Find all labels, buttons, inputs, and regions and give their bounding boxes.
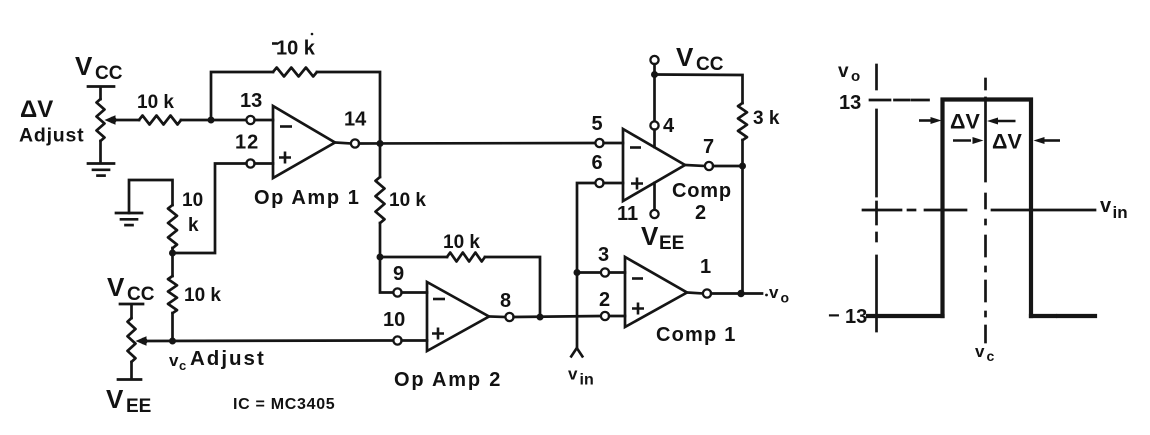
svg-text:V: V (641, 221, 659, 251)
wire node C to R6 (380, 256, 447, 259)
svg-text:c: c (179, 358, 186, 373)
svg-text:CC: CC (696, 54, 724, 75)
svg-text:Adjust: Adjust (19, 125, 84, 147)
label Comp 2 (672, 180, 732, 224)
svg-text:13: 13 (240, 90, 262, 112)
wire pin 4 stub into comp 2 (653, 130, 656, 147)
comparator U4 Comp 1 (625, 257, 687, 327)
svg-text:Op Amp 1: Op Amp 1 (254, 187, 361, 209)
node D (537, 314, 544, 321)
dimension arrow left (to pulse left edge) (919, 117, 942, 124)
node H (651, 71, 658, 78)
graph y-axis (dashed) (875, 65, 878, 331)
wire pin 11 stub (653, 183, 656, 210)
leader dashes at +13 level (870, 99, 929, 102)
svg-text:CC: CC (127, 284, 155, 305)
wire pin 3 to comp 1 (609, 271, 625, 274)
svg-text:Op Amp 2: Op Amp 2 (394, 369, 502, 391)
dimension arrow right (to center line, row 1) (987, 118, 1016, 125)
svg-text:v: v (169, 351, 179, 370)
pin 8 terminal (505, 313, 513, 321)
label vin (source) (568, 365, 594, 389)
node F (169, 250, 176, 257)
wire R6 to node D (485, 257, 540, 317)
svg-text:o: o (781, 290, 790, 306)
pin 10 terminal (393, 336, 401, 344)
wire pin 1 to vo terminal (711, 292, 762, 295)
wire pin14 to node B and long run to pin 5 (359, 142, 595, 145)
graph center line vc (dash-dot) (984, 79, 987, 342)
wire op amp 1 output (335, 143, 351, 144)
svg-text:3 k: 3 k (753, 108, 780, 129)
wire R1 to pin 13 (181, 119, 247, 122)
wire pin 7 to node I (713, 165, 742, 168)
node I (pin 7 / pull-up) (739, 163, 746, 170)
svg-text:Comp 1: Comp 1 (656, 324, 737, 346)
wire pin 9 to op amp 2 (402, 291, 427, 294)
wire R5 to node E (171, 313, 174, 341)
pin 6 terminal (595, 179, 603, 187)
svg-text:2: 2 (695, 202, 706, 224)
wire node I down to node J (741, 166, 744, 294)
svg-text:ΔV: ΔV (20, 96, 53, 123)
svg-text:v: v (568, 365, 578, 384)
node B (377, 140, 384, 147)
wire ground to R4 top (129, 180, 173, 213)
node J (vo) (737, 290, 744, 297)
node P2 wiper (141, 338, 148, 345)
wire pin13 to op amp (255, 119, 273, 122)
label vc Adjust (169, 347, 266, 373)
svg-text:−: − (828, 305, 840, 327)
svg-text:V: V (106, 384, 124, 414)
wire pin12 to op amp (255, 162, 273, 165)
wire pin 10 to op amp 2 (402, 339, 427, 342)
svg-text:k: k (188, 215, 199, 236)
label vc (graph) (975, 342, 995, 364)
svg-text:9: 9 (393, 263, 404, 285)
pin 1 terminal (703, 289, 711, 297)
svg-text:2: 2 (599, 289, 610, 311)
svg-text:c: c (987, 348, 995, 364)
wire node C down to pin 9 (380, 257, 393, 293)
label VEE (comp 2) (641, 221, 684, 254)
svg-text:V: V (676, 42, 694, 72)
graph vin axis (dash-dot) (863, 209, 1095, 212)
resistor R2 10 k (op amp 1 feedback) (273, 68, 317, 77)
node P1 wiper (110, 117, 117, 124)
pin 7 terminal (705, 162, 713, 170)
svg-text:V: V (75, 51, 93, 81)
label VEE (vc pot) (106, 384, 151, 417)
svg-text:v: v (769, 283, 779, 302)
svg-text:3: 3 (598, 244, 609, 266)
wire op amp 2 output (489, 315, 505, 318)
svg-text:CC: CC (95, 63, 123, 84)
pin 11 terminal (650, 210, 658, 218)
label vo (output) (765, 283, 789, 306)
svg-text:13: 13 (845, 306, 867, 328)
svg-text:v: v (975, 342, 985, 361)
wire feedback right to node B (317, 72, 380, 144)
pin 13 terminal (246, 116, 254, 124)
pin 12 terminal (246, 159, 254, 167)
wire node G to pin 3 (577, 271, 601, 274)
svg-text:EE: EE (659, 233, 684, 254)
svg-text:in: in (580, 372, 594, 389)
svg-text:10: 10 (383, 309, 405, 331)
node E (169, 338, 176, 345)
svg-text:Comp: Comp (672, 180, 732, 202)
svg-text:10 k: 10 k (137, 92, 174, 113)
svg-text:1: 1 (700, 256, 711, 278)
pin 4 terminal (650, 121, 658, 129)
wire wiper to R1 (113, 119, 139, 122)
op-amp U1 Op Amp 1 (273, 106, 335, 178)
resistor R7 3 k (pull-up) (738, 103, 747, 140)
svg-text:7: 7 (703, 136, 714, 158)
graph output low segment (left) (868, 314, 943, 318)
svg-text:13: 13 (839, 92, 861, 114)
wire pin 5 to comp 2 (604, 142, 623, 145)
wire R4 to node F (171, 248, 174, 276)
op-amp U2 Op Amp 2 (427, 282, 489, 351)
arrow vin source (571, 348, 584, 358)
svg-text:IC = MC3405: IC = MC3405 (233, 396, 335, 413)
comparator U3 Comp 2 (623, 129, 685, 201)
pin 14 terminal (351, 139, 359, 147)
label VCC (vc pot) (107, 272, 155, 305)
wire comp 1 output (687, 293, 703, 294)
svg-text:11: 11 (617, 203, 638, 225)
resistor R1 10 k (input) (139, 116, 181, 125)
label 10 / k (R4) (182, 190, 203, 236)
svg-text:6: 6 (592, 152, 603, 174)
wire pin12 stub to node F (176, 164, 246, 254)
svg-text:EE: EE (126, 396, 151, 417)
resistor R5 10 k (lower divider) (168, 276, 177, 313)
svg-text:v: v (838, 61, 849, 82)
label VCC (delta-V pot) (75, 51, 123, 84)
graph pulse (output high) (943, 100, 1032, 317)
label vo (graph y-axis) (838, 61, 860, 85)
wire feedback left riser (211, 72, 273, 120)
svg-text:12: 12 (235, 132, 259, 154)
pin 2 terminal (601, 312, 609, 320)
dimension arrow left (to center line, row 2) (953, 137, 984, 144)
node G (vin to pin 3) (574, 269, 581, 276)
potentiometer P2 (vc adjust) (118, 304, 147, 380)
svg-text:5: 5 (592, 113, 603, 135)
label VCC (comp 2) (676, 42, 724, 75)
wire node B down to R3 (379, 144, 382, 178)
svg-text:10 k: 10 k (389, 190, 426, 211)
wire VCC terminal to node H (653, 64, 656, 121)
wire comp 2 output (685, 165, 705, 166)
graph output low segment (right) (1031, 314, 1095, 318)
label vin (graph x-axis) (1100, 195, 1128, 222)
node A (feedback tap) (208, 117, 215, 124)
node C (377, 254, 384, 261)
wire node H to 3k resistor (655, 75, 743, 104)
svg-text:10: 10 (182, 190, 203, 211)
wire vin vertical run (577, 183, 595, 347)
pin 3 terminal (601, 268, 609, 276)
svg-text:o: o (851, 68, 860, 85)
wire pin 6 to comp 2 (604, 182, 623, 185)
resistor R4 10 k (upper divider) (168, 205, 177, 248)
svg-text:14: 14 (344, 109, 367, 131)
svg-text:ΔV: ΔV (992, 130, 1022, 154)
ground (left of R4) (116, 213, 142, 225)
pin 9 terminal (393, 288, 401, 296)
svg-text:10 k: 10 k (184, 285, 221, 306)
svg-text:Adjust: Adjust (190, 347, 266, 370)
wire R3 to node C (379, 223, 382, 257)
wire pin 8 to node D and to pin 2 (514, 316, 601, 317)
potentiometer P1 (delta-V adjust) (88, 87, 116, 163)
VCC terminal (comp 2) (650, 56, 658, 64)
wire R7 to node I (741, 140, 744, 166)
wire pin 2 to comp 1 (609, 315, 625, 318)
svg-text:V: V (107, 272, 125, 302)
wire wiper to pin 10 (long run) (144, 339, 393, 342)
label delta-V Adjust (19, 96, 84, 147)
svg-text:10 k: 10 k (276, 38, 316, 60)
resistor R3 10 k (below node B) (376, 177, 385, 223)
svg-text:10 k: 10 k (443, 232, 480, 253)
ground (under P1) (88, 164, 114, 176)
svg-text:4: 4 (663, 115, 675, 137)
svg-text:8: 8 (500, 290, 511, 312)
pin 5 terminal (595, 139, 603, 147)
svg-text:ΔV: ΔV (950, 110, 980, 134)
svg-text:v: v (1100, 195, 1112, 217)
svg-text:in: in (1113, 203, 1128, 222)
resistor R6 10 k (op amp 2 feedback) (447, 253, 485, 262)
dimension arrow right (to pulse right edge) (1034, 137, 1061, 144)
